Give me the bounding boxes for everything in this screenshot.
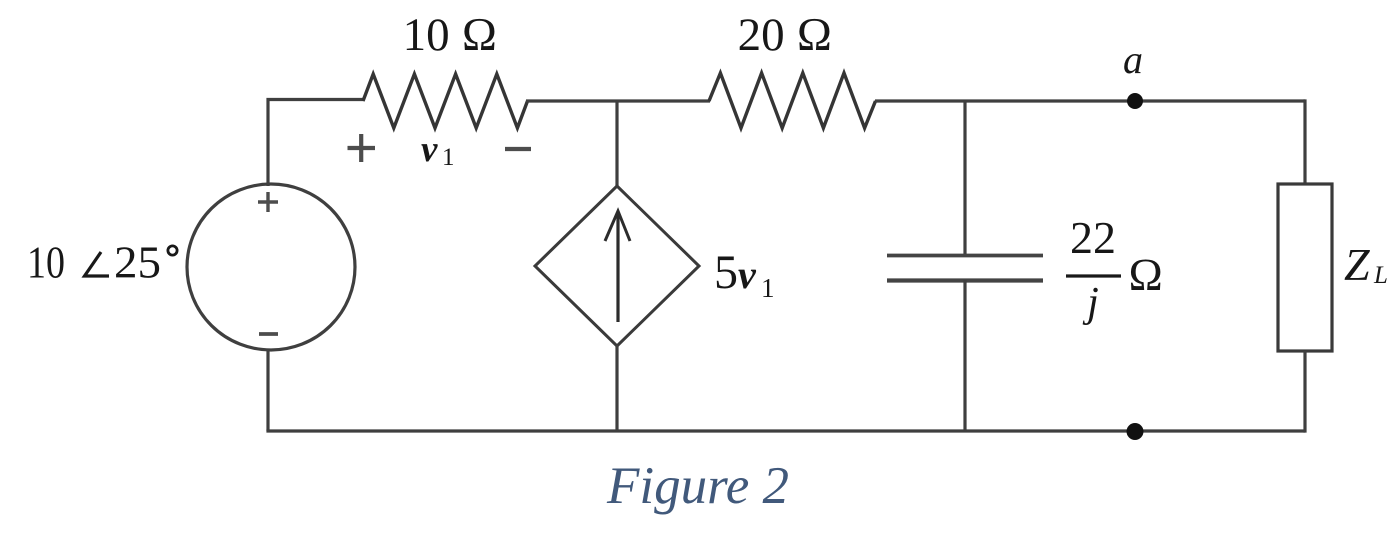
svg-text:v: v bbox=[738, 252, 757, 297]
resistor R1 10 ohm bbox=[363, 74, 528, 128]
label - (v1 polarity minus) bbox=[505, 147, 531, 151]
resistor R2 20 ohm bbox=[709, 73, 876, 128]
svg-text:25: 25 bbox=[114, 238, 161, 288]
wire: dependent source bottom to bottom rail bbox=[615, 345, 618, 431]
svg-text:a: a bbox=[1123, 37, 1143, 82]
capacitor C1 bottom plate bbox=[887, 278, 1043, 282]
node a (dot) bbox=[1127, 93, 1143, 109]
wire: R1 to dependent source node bbox=[526, 99, 710, 102]
svg-text:v: v bbox=[421, 129, 438, 170]
svg-text:1: 1 bbox=[442, 144, 455, 171]
degree mark bbox=[168, 246, 177, 255]
capacitor C1 top plate bbox=[887, 254, 1043, 258]
label + (v1 polarity plus) bbox=[348, 134, 376, 162]
voltage source VS 10∠25° (circle) bbox=[187, 184, 355, 350]
wire: load bottom to bottom-right corner bbox=[1303, 351, 1306, 433]
wire: top node to dependent source bbox=[615, 101, 618, 187]
svg-text:Figure 2: Figure 2 bbox=[606, 457, 789, 515]
svg-text:j: j bbox=[1082, 280, 1099, 326]
load impedance ZL (rectangle) bbox=[1278, 184, 1332, 351]
wire: top-right corner down to load bbox=[1303, 99, 1306, 185]
dependent current source D1 (diamond) bbox=[535, 186, 699, 346]
svg-text:20 Ω: 20 Ω bbox=[738, 9, 833, 61]
wire: R2 to top-right corner bbox=[875, 99, 1305, 102]
node b (bottom dot) bbox=[1127, 423, 1144, 440]
svg-text:10: 10 bbox=[27, 238, 65, 288]
svg-text:1: 1 bbox=[761, 273, 775, 303]
minus sign inside source bbox=[259, 332, 278, 336]
angle symbol bbox=[85, 252, 110, 276]
svg-text:Z: Z bbox=[1344, 239, 1370, 290]
wire: top-left from source top to R1 bbox=[268, 100, 364, 187]
svg-text:10 Ω: 10 Ω bbox=[403, 9, 498, 61]
svg-text:5: 5 bbox=[714, 246, 738, 299]
wire: capacitor branch top bbox=[963, 101, 966, 256]
svg-text:L: L bbox=[1373, 262, 1388, 289]
arrow inside dependent source bbox=[616, 212, 619, 322]
wire: source bottom to bottom-left corner bbox=[266, 350, 269, 431]
svg-text:Ω: Ω bbox=[1128, 249, 1163, 300]
wire: capacitor branch bottom bbox=[963, 280, 966, 431]
wire: bottom rail bbox=[266, 429, 1305, 432]
svg-text:22: 22 bbox=[1070, 212, 1116, 263]
plus sign inside source bbox=[258, 192, 278, 212]
